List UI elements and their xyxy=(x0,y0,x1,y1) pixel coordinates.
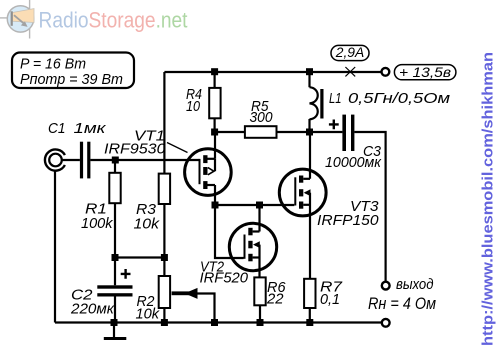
svg-text:IRF520: IRF520 xyxy=(200,270,249,287)
svg-text:Rн = 4 Ом: Rн = 4 Ом xyxy=(368,294,436,313)
svg-text:0,5Гн/0,5Ом: 0,5Гн/0,5Ом xyxy=(348,90,450,107)
svg-text:IRFP150: IRFP150 xyxy=(317,212,379,229)
svg-text:L1: L1 xyxy=(329,90,342,107)
svg-text:300: 300 xyxy=(250,109,274,126)
svg-text:10: 10 xyxy=(186,98,201,115)
svg-text:+ 13,5в: + 13,5в xyxy=(399,64,451,80)
svg-text:1мк: 1мк xyxy=(74,120,107,137)
svg-text:C1: C1 xyxy=(48,120,66,137)
svg-text:выход: выход xyxy=(396,277,434,293)
svg-text:220мк: 220мк xyxy=(70,301,115,318)
svg-text:10k: 10k xyxy=(134,216,161,233)
svg-text:22: 22 xyxy=(266,291,284,308)
svg-text:IRF9530: IRF9530 xyxy=(104,140,166,157)
svg-text:Рпотр = 39 Вт: Рпотр = 39 Вт xyxy=(20,71,123,88)
svg-text:10k: 10k xyxy=(136,306,161,323)
svg-text:RadioStorage.net: RadioStorage.net xyxy=(39,8,189,33)
svg-text:2,9А: 2,9А xyxy=(335,44,364,60)
svg-text:10000мк: 10000мк xyxy=(325,154,382,171)
svg-text:100k: 100k xyxy=(81,215,114,232)
svg-text:0,1: 0,1 xyxy=(320,291,340,308)
svg-text:http://www.bluesmobil.com/shik: http://www.bluesmobil.com/shikhman xyxy=(480,52,497,346)
